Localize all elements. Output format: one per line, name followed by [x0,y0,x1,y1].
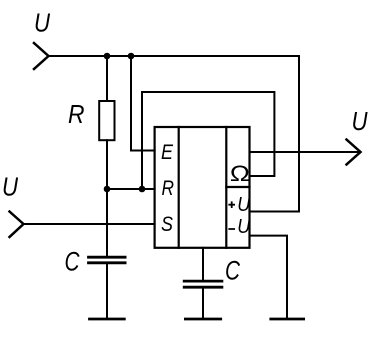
svg-text:C: C [225,256,240,286]
svg-text:R: R [162,177,175,200]
svg-text:Ω: Ω [230,161,250,186]
svg-text:S: S [161,213,173,236]
svg-text:E: E [161,141,174,164]
svg-text:U: U [34,8,50,38]
svg-text:U: U [2,172,18,202]
svg-text:U: U [237,215,250,238]
svg-text:R: R [68,99,85,129]
svg-text:U: U [352,106,368,136]
svg-text:C: C [65,247,80,277]
svg-text:U: U [237,193,250,216]
